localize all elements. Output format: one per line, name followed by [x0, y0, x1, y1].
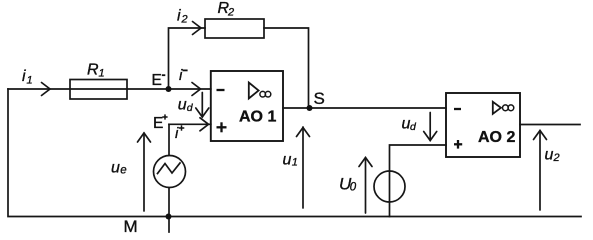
svg-text:AO 1: AO 1	[239, 109, 276, 126]
svg-text:R: R	[87, 62, 99, 79]
svg-text:1: 1	[27, 75, 33, 87]
svg-text:AO 2: AO 2	[478, 129, 515, 146]
svg-text:i: i	[175, 125, 179, 142]
svg-text:i: i	[22, 68, 26, 85]
svg-text:u: u	[545, 147, 554, 164]
svg-text:0: 0	[350, 182, 357, 194]
svg-text:u: u	[283, 152, 292, 169]
svg-text:1: 1	[292, 157, 298, 169]
svg-text:e: e	[120, 164, 126, 176]
svg-text:E: E	[152, 72, 162, 89]
svg-text:S: S	[314, 89, 325, 108]
svg-text:2: 2	[227, 7, 234, 19]
svg-text:1: 1	[99, 68, 105, 80]
svg-text:u: u	[178, 97, 187, 114]
svg-text:d: d	[410, 121, 417, 133]
svg-text:2: 2	[181, 14, 188, 26]
svg-text:d: d	[187, 102, 194, 114]
svg-text:2: 2	[553, 152, 560, 164]
svg-text:E: E	[153, 115, 163, 132]
svg-text:M: M	[124, 217, 138, 236]
svg-text:u: u	[111, 160, 120, 177]
svg-text:i: i	[177, 8, 181, 25]
svg-text:i: i	[179, 67, 183, 84]
